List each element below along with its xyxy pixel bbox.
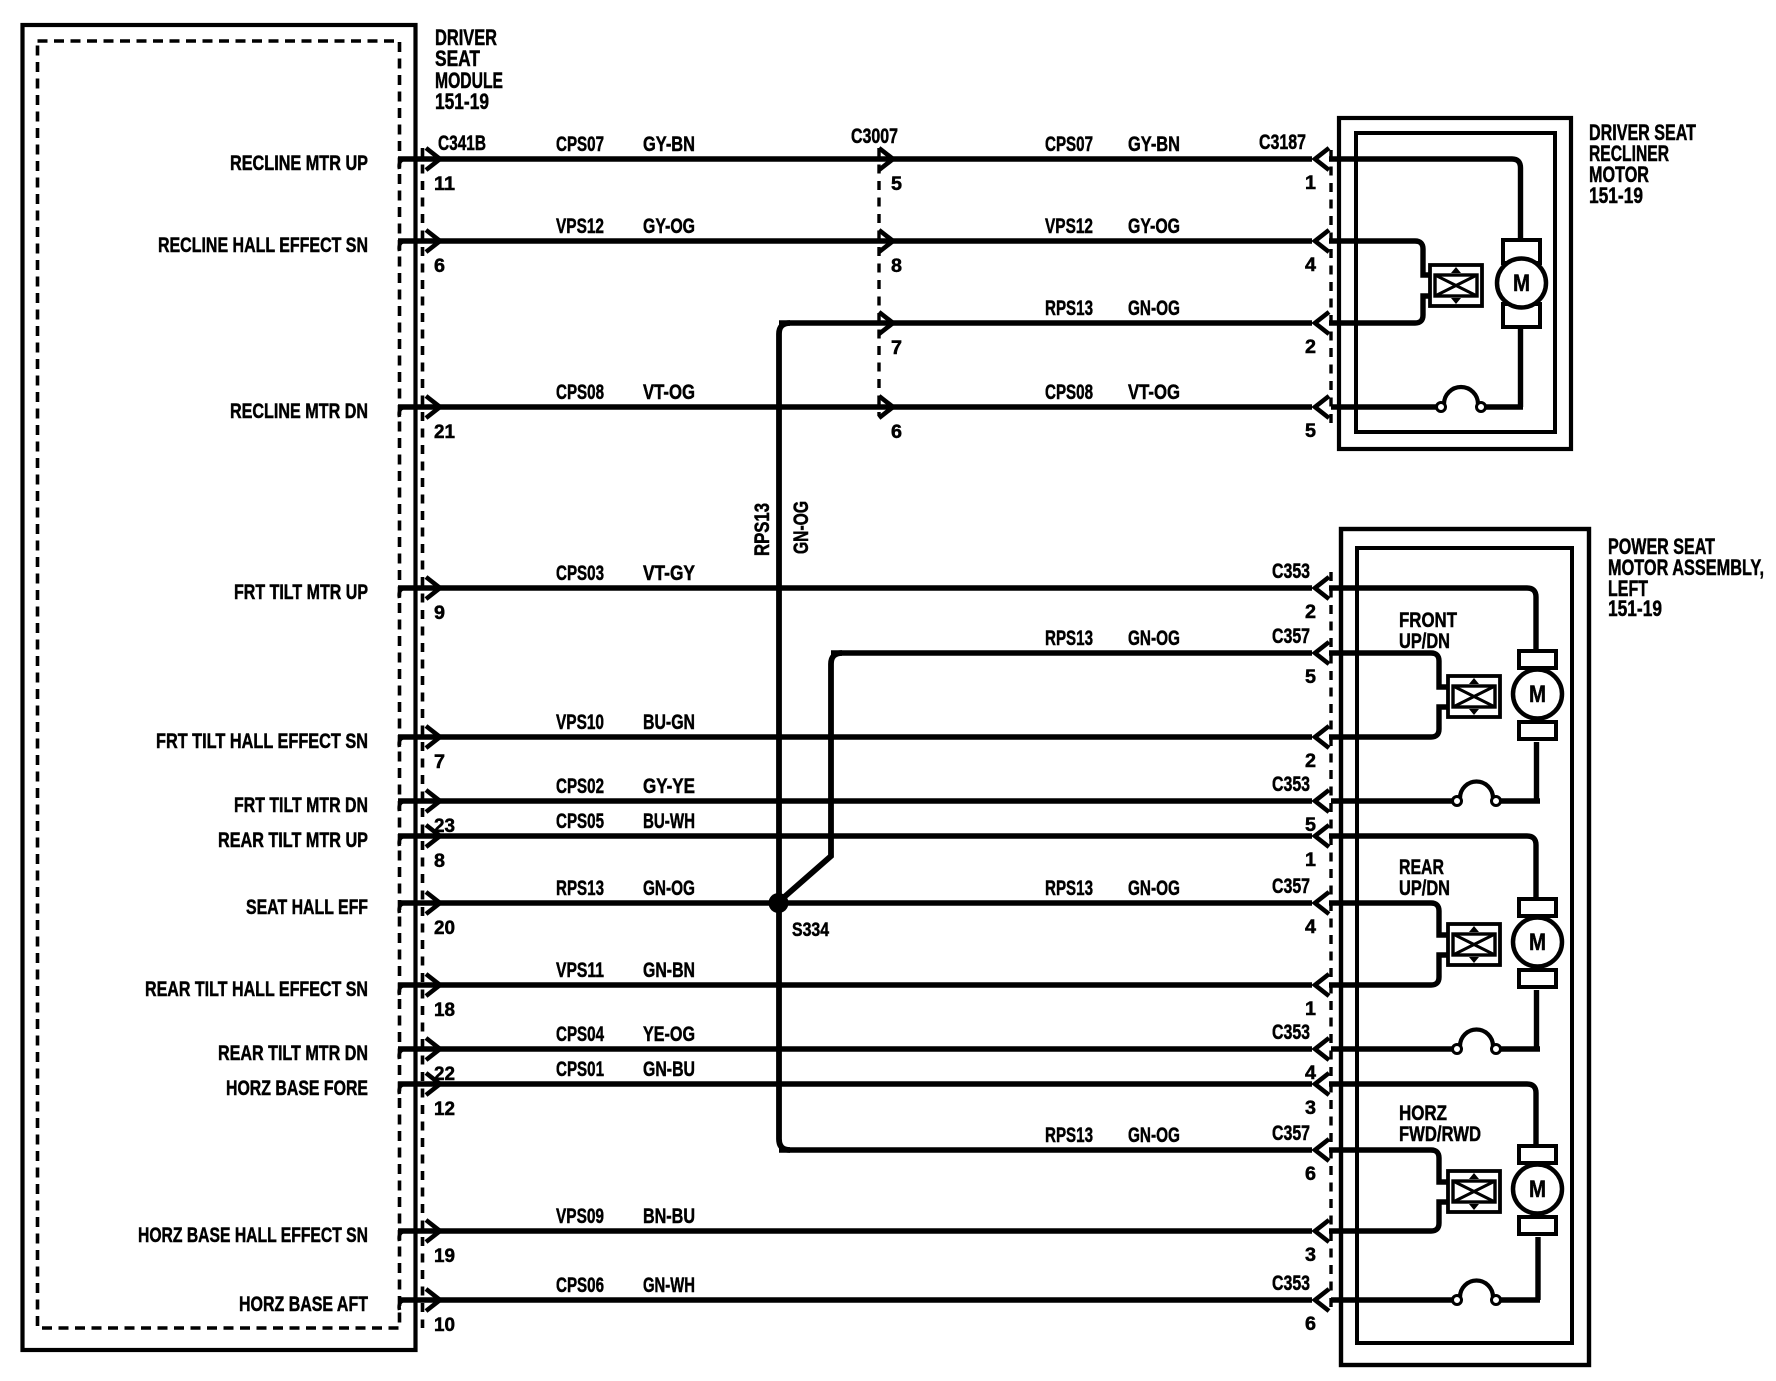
wire CPS06 motor side with hop: [1331, 1297, 1453, 1302]
svg-text:BN-BU: BN-BU: [643, 1205, 695, 1228]
svg-text:CPS08: CPS08: [556, 381, 604, 404]
svg-text:CPS03: CPS03: [556, 562, 604, 585]
svg-text:RPS13: RPS13: [1045, 627, 1093, 650]
horz fwd/rwd motor M: [1519, 1146, 1556, 1163]
svg-text:FRT TILT HALL EFFECT SN: FRT TILT HALL EFFECT SN: [156, 730, 368, 753]
horz motor bottom lead: [1535, 1237, 1540, 1300]
svg-text:20: 20: [434, 918, 455, 939]
svg-text:FRONT: FRONT: [1399, 609, 1457, 632]
label REAR UP/DN: [1399, 856, 1450, 900]
wire RPS13 motor side to front hall sensor: [1329, 653, 1448, 687]
svg-text:2: 2: [1305, 337, 1316, 358]
wire FRT TILT MTR DN CPS02 GY-YE to C353 pin5: [399, 801, 406, 811]
wire VPS11 motor side to rear hall sensor: [1329, 955, 1448, 985]
wire CPS08 motor side with hop: [1331, 404, 1437, 409]
svg-text:BU-GN: BU-GN: [643, 711, 695, 734]
svg-text:6: 6: [1305, 1314, 1316, 1335]
svg-text:GN-BU: GN-BU: [643, 1058, 695, 1081]
svg-text:C357: C357: [1272, 1122, 1310, 1145]
wire HORZ BASE FORE CPS01 GN-BU: [399, 1084, 406, 1094]
svg-text:12: 12: [434, 1099, 455, 1120]
wire VPS10 motor side to front hall sensor: [1329, 707, 1448, 737]
svg-text:GN-OG: GN-OG: [1128, 297, 1180, 320]
label CPS07 GY-BN (left segment row 1): [556, 133, 695, 156]
connector C3007 dashed line: [877, 148, 880, 416]
svg-text:C353: C353: [1272, 560, 1310, 583]
svg-text:VPS09: VPS09: [556, 1205, 604, 1228]
wire RPS13 GN-OG branch to C357 pin6: [779, 1147, 1312, 1152]
svg-text:BU-WH: BU-WH: [643, 810, 695, 833]
label CPS03 VT-GY (left segment row 5): [556, 562, 695, 585]
svg-text:GN-BN: GN-BN: [643, 959, 695, 982]
wire RECLINE MTR DN CPS08 VT-OG: [399, 407, 406, 417]
svg-text:VPS12: VPS12: [556, 215, 604, 238]
svg-text:5: 5: [1305, 815, 1316, 836]
svg-text:1: 1: [1305, 999, 1316, 1020]
svg-text:GY-OG: GY-OG: [643, 215, 695, 238]
label VPS12 GY-OG (right segment row 2): [1045, 215, 1180, 238]
svg-text:6: 6: [1305, 1164, 1316, 1185]
svg-text:VPS12: VPS12: [1045, 215, 1093, 238]
svg-text:S334: S334: [792, 920, 829, 941]
svg-text:RECLINE HALL EFFECT SN: RECLINE HALL EFFECT SN: [158, 234, 368, 257]
svg-text:C3187: C3187: [1259, 131, 1306, 154]
svg-text:M: M: [1529, 681, 1546, 708]
svg-text:SEAT HALL EFF: SEAT HALL EFF: [246, 896, 368, 919]
wire REAR TILT MTR DN CPS04 YE-OG to C353 pin4: [399, 1049, 406, 1059]
driver seat recliner motor box (outer): [1339, 118, 1571, 449]
svg-text:5: 5: [1305, 421, 1316, 442]
wire RPS13 GN-OG branch to C357 pin5: [831, 650, 1312, 655]
svg-text:6: 6: [434, 256, 445, 277]
svg-text:7: 7: [891, 338, 902, 359]
svg-text:RECLINE MTR DN: RECLINE MTR DN: [230, 400, 368, 423]
svg-text:18: 18: [434, 1000, 455, 1021]
svg-text:GN-OG: GN-OG: [1128, 877, 1180, 900]
front up/dn motor M: [1519, 651, 1556, 668]
wire RECLINE HALL EFFECT SN VPS12 GY-OG: [399, 241, 406, 251]
driver seat recliner motor box (inner): [1356, 133, 1555, 432]
connector C353/C357 dashed line: [1329, 572, 1332, 1312]
label POWER SEAT MOTOR ASSEMBLY, LEFT 151-19: [1608, 534, 1764, 621]
wire VPS12 motor side to hall sensor: [1329, 241, 1430, 275]
svg-text:6: 6: [891, 422, 902, 443]
rear motor bottom lead: [1534, 990, 1539, 1049]
label VPS10 BU-GN (left segment row 7): [556, 711, 695, 734]
svg-text:C357: C357: [1272, 625, 1310, 648]
wire REAR TILT MTR UP CPS05 BU-WH: [399, 836, 406, 846]
svg-text:VT-OG: VT-OG: [1128, 381, 1180, 404]
wire HORZ BASE AFT CPS06 GN-WH to C353 pin6: [399, 1300, 406, 1310]
svg-text:GN-WH: GN-WH: [643, 1274, 695, 1297]
label DRIVER SEAT RECLINER MOTOR 151-19: [1589, 120, 1696, 208]
module label DRIVER SEAT MODULE 151-19: [435, 25, 503, 114]
svg-text:RPS13: RPS13: [556, 877, 604, 900]
svg-text:C353: C353: [1272, 773, 1310, 796]
svg-text:CPS06: CPS06: [556, 1274, 604, 1297]
svg-text:VT-OG: VT-OG: [643, 381, 695, 404]
power seat motor assembly box (inner): [1357, 548, 1572, 1343]
label FRONT UP/DN: [1399, 609, 1457, 653]
svg-text:1: 1: [1305, 850, 1316, 871]
svg-text:7: 7: [434, 752, 445, 773]
wire CPS02 motor side with hop: [1331, 798, 1453, 803]
wire FRT TILT HALL EFFECT SN VPS10 BU-GN: [399, 737, 406, 747]
svg-text:HORZ BASE FORE: HORZ BASE FORE: [226, 1077, 368, 1100]
svg-text:GN-OG: GN-OG: [790, 501, 813, 554]
label CPS07 GY-BN (right segment row 1): [1045, 133, 1180, 156]
svg-text:GY-BN: GY-BN: [1128, 133, 1180, 156]
svg-text:2: 2: [1305, 602, 1316, 623]
label CPS06 GN-WH (left segment row 16): [556, 1274, 695, 1297]
wire RECLINE MTR UP CPS07 GY-BN (module to C3007 to C3187): [399, 159, 406, 169]
svg-text:YE-OG: YE-OG: [643, 1023, 695, 1046]
svg-text:M: M: [1529, 1176, 1546, 1203]
svg-text:11: 11: [434, 174, 455, 195]
svg-text:3: 3: [1305, 1098, 1316, 1119]
wire RPS13 GN-OG vertical splice bus: [779, 323, 790, 1150]
driver seat module box (solid): [23, 25, 416, 1350]
wire RPS13 GN-OG from splice bus to C3007 pin7 to C3187 pin2: [779, 320, 1312, 325]
svg-text:REAR: REAR: [1399, 856, 1444, 879]
svg-text:UP/DN: UP/DN: [1399, 630, 1450, 653]
svg-text:C357: C357: [1272, 875, 1310, 898]
label VPS11 GN-BN (left segment row 11): [556, 959, 695, 982]
wire HORZ BASE HALL EFFECT SN VPS09 BN-BU: [399, 1231, 406, 1241]
svg-text:FRT TILT MTR DN: FRT TILT MTR DN: [234, 794, 368, 817]
label CPS08 VT-OG (left segment row 4): [556, 381, 695, 404]
svg-text:HORZ: HORZ: [1399, 1102, 1447, 1125]
svg-text:FWD/RWD: FWD/RWD: [1399, 1123, 1481, 1146]
svg-text:C341B: C341B: [438, 132, 486, 155]
svg-text:19: 19: [434, 1246, 455, 1267]
svg-text:C353: C353: [1272, 1021, 1310, 1044]
label VPS09 BN-BU (left segment row 15): [556, 1205, 695, 1228]
svg-text:C353: C353: [1272, 1272, 1310, 1295]
wire RPS13 motor side to rear hall sensor: [1329, 903, 1448, 935]
wire CPS04 motor side with hop: [1331, 1046, 1453, 1051]
svg-text:FRT TILT MTR UP: FRT TILT MTR UP: [234, 581, 368, 604]
label CPS08 VT-OG (right segment row 4): [1045, 381, 1180, 404]
wire FRT TILT MTR UP CPS03 VT-GY to C353 pin2: [399, 588, 406, 598]
label CPS02 GY-YE (left segment row 8): [556, 775, 695, 798]
rear hall-effect sensor: [1448, 924, 1500, 965]
svg-text:4: 4: [1305, 917, 1316, 938]
svg-text:1: 1: [1305, 173, 1316, 194]
label RPS13 GN-OG (left segment row 10): [556, 877, 695, 900]
wire RPS13 GN-OG branch (diagonal to splice): [782, 653, 842, 899]
label CPS05 BU-WH (left segment row 9): [556, 810, 695, 833]
svg-text:GN-OG: GN-OG: [643, 877, 695, 900]
svg-text:GN-OG: GN-OG: [1128, 627, 1180, 650]
wire CPS07 motor side into recliner: [1329, 159, 1521, 240]
svg-text:RECLINE MTR UP: RECLINE MTR UP: [230, 152, 368, 175]
wire VPS09 motor side to horz hall sensor: [1329, 1202, 1448, 1231]
label CPS04 YE-OG (left segment row 12): [556, 1023, 695, 1046]
label CPS01 GN-BU (left segment row 13): [556, 1058, 695, 1081]
rear up/dn motor M: [1519, 899, 1556, 916]
svg-text:4: 4: [1305, 1063, 1316, 1084]
svg-text:2: 2: [1305, 751, 1316, 772]
svg-text:CPS01: CPS01: [556, 1058, 604, 1081]
svg-text:CPS05: CPS05: [556, 810, 604, 833]
connector C341B dashed line: [421, 148, 425, 1328]
label RPS13 GN-OG (right segment row 3): [1045, 297, 1180, 320]
label RPS13 GN-OG (right segment row 6): [1045, 627, 1180, 650]
svg-text:HORZ BASE AFT: HORZ BASE AFT: [239, 1293, 368, 1316]
svg-text:151-19: 151-19: [1589, 183, 1643, 208]
svg-text:22: 22: [434, 1064, 455, 1085]
svg-text:M: M: [1529, 929, 1546, 956]
svg-text:GN-OG: GN-OG: [1128, 1124, 1180, 1147]
driver seat module box (dashed): [38, 41, 400, 1328]
wire SEAT HALL EFF RPS13 GN-OG through splice S334: [399, 903, 406, 913]
svg-text:9: 9: [434, 603, 445, 624]
svg-text:5: 5: [1305, 667, 1316, 688]
svg-text:RPS13: RPS13: [1045, 297, 1093, 320]
svg-text:RPS13: RPS13: [1045, 1124, 1093, 1147]
svg-text:M: M: [1513, 270, 1530, 297]
wire CPS05 motor side to rear up/dn motor: [1329, 836, 1536, 900]
svg-text:RPS13: RPS13: [751, 503, 774, 556]
svg-text:REAR TILT MTR DN: REAR TILT MTR DN: [218, 1042, 368, 1065]
svg-text:151-19: 151-19: [435, 89, 489, 114]
label HORZ FWD/RWD: [1399, 1102, 1481, 1146]
svg-text:CPS04: CPS04: [556, 1023, 604, 1046]
svg-text:23: 23: [434, 816, 455, 837]
wire REAR TILT HALL EFFECT SN VPS11 GN-BN: [399, 985, 406, 995]
front motor bottom lead: [1534, 742, 1539, 801]
svg-text:CPS07: CPS07: [1045, 133, 1093, 156]
svg-text:CPS02: CPS02: [556, 775, 604, 798]
horz hall-effect sensor: [1448, 1171, 1500, 1212]
svg-text:8: 8: [434, 851, 445, 872]
svg-text:CPS07: CPS07: [556, 133, 604, 156]
svg-text:GY-YE: GY-YE: [643, 775, 695, 798]
svg-text:RPS13: RPS13: [1045, 877, 1093, 900]
svg-text:3: 3: [1305, 1245, 1316, 1266]
svg-text:GY-OG: GY-OG: [1128, 215, 1180, 238]
label RPS13 GN-OG (right segment row 10): [1045, 877, 1180, 900]
svg-text:REAR TILT MTR UP: REAR TILT MTR UP: [218, 829, 368, 852]
svg-text:HORZ BASE HALL EFFECT SN: HORZ BASE HALL EFFECT SN: [138, 1224, 368, 1247]
svg-text:21: 21: [434, 422, 455, 443]
connector C3187 dashed line: [1329, 150, 1332, 425]
recliner motor bottom lead: [1518, 326, 1523, 407]
recliner motor M: [1503, 240, 1540, 263]
svg-text:10: 10: [434, 1315, 455, 1336]
svg-text:5: 5: [891, 174, 902, 195]
front hall-effect sensor: [1448, 676, 1500, 717]
svg-text:GY-BN: GY-BN: [643, 133, 695, 156]
svg-text:VT-GY: VT-GY: [643, 562, 695, 585]
svg-text:151-19: 151-19: [1608, 596, 1662, 621]
svg-text:UP/DN: UP/DN: [1399, 877, 1450, 900]
splice S334 junction dot: [769, 893, 789, 913]
power seat motor assembly box (outer): [1341, 529, 1589, 1365]
svg-text:VPS11: VPS11: [556, 959, 604, 982]
label RPS13 GN-OG (right segment row 14): [1045, 1124, 1180, 1147]
svg-text:8: 8: [891, 256, 902, 277]
svg-text:REAR TILT HALL EFFECT SN: REAR TILT HALL EFFECT SN: [145, 978, 368, 1001]
wire CPS01 motor side to horz fwd/rwd motor: [1329, 1084, 1536, 1147]
recliner hall-effect sensor: [1430, 265, 1482, 306]
svg-text:CPS08: CPS08: [1045, 381, 1093, 404]
wire RPS13 motor side to horz hall sensor: [1329, 1150, 1448, 1182]
wire CPS03 motor side to front up/dn motor: [1329, 588, 1536, 652]
svg-text:4: 4: [1305, 255, 1316, 276]
svg-text:C3007: C3007: [851, 125, 898, 148]
wire RPS13 motor side to hall sensor: [1329, 296, 1430, 323]
label VPS12 GY-OG (left segment row 2): [556, 215, 695, 238]
svg-text:VPS10: VPS10: [556, 711, 604, 734]
